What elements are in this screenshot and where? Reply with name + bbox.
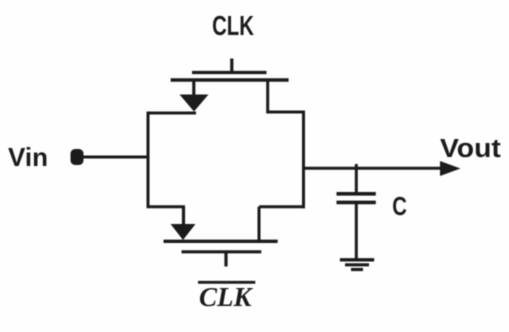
transistor M1 gate tick (CLK connection) — [230, 59, 233, 73]
svg-text:Vin: Vin — [8, 142, 48, 172]
capacitor C1 top lead — [355, 164, 358, 193]
net label CLKbar overline — [198, 281, 255, 284]
wire right rail — [302, 111, 305, 209]
capacitor C1 top plate — [337, 192, 376, 196]
transistor M1 channel bar — [171, 78, 289, 81]
transistor M2 channel bar — [164, 240, 278, 243]
wire Vin input — [82, 156, 150, 159]
wire Vout output — [304, 167, 443, 170]
output arrowhead — [440, 161, 461, 176]
svg-text:C: C — [392, 192, 407, 221]
svg-text:CLK: CLK — [212, 11, 254, 42]
transistor M2 gate bar — [182, 250, 262, 253]
transistor M2 source terminal with arrow — [171, 207, 196, 240]
ground symbol — [340, 260, 374, 270]
wire M2 drain to right rail — [259, 205, 305, 208]
transistor M2 drain terminal — [258, 207, 261, 242]
svg-text:Vout: Vout — [440, 133, 501, 163]
capacitor C1 bottom plate — [337, 201, 376, 205]
input terminal dot — [71, 149, 84, 165]
transistor M1 source terminal with arrow — [180, 80, 209, 112]
svg-text:CLK: CLK — [199, 282, 254, 312]
transistor M1 drain terminal to right rail — [268, 80, 304, 112]
transistor M1 gate bar — [192, 71, 267, 74]
wire left rail to M2 source — [147, 205, 186, 208]
transistor M2 gate tick (CLKbar connection) — [224, 252, 227, 267]
capacitor C1 bottom lead — [355, 203, 358, 260]
wire M1 source to left rail — [147, 112, 197, 115]
wire left rail — [147, 112, 150, 209]
